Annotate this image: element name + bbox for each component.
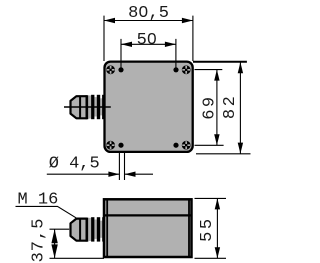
dimension 50 extension lines bbox=[121, 39, 176, 68]
side view left wall line bbox=[106, 200, 108, 257]
cable gland (side view) bbox=[71, 217, 104, 241]
dimension 55 line bbox=[216, 198, 218, 258]
cable gland (top view) bbox=[71, 95, 104, 119]
dimension 37,5 extension lines bbox=[50, 229, 105, 258]
dimension hole diameter leader lines bbox=[47, 173, 153, 175]
dimension 55 extension lines bbox=[195, 198, 227, 258]
side view enclosure body bbox=[104, 199, 192, 257]
dimension 82 line bbox=[239, 62, 241, 153]
dimension 82 extension lines bbox=[193, 61, 247, 63]
mounting hole bottom-left bbox=[118, 143, 123, 148]
mounting hole top-right bbox=[173, 67, 178, 72]
dimension 37,5 line bbox=[54, 229, 56, 258]
dimension 80,5 extension lines bbox=[104, 16, 193, 61]
dimension 50 line bbox=[121, 43, 176, 45]
svg-text:50: 50 bbox=[137, 31, 157, 50]
top view enclosure body bbox=[105, 62, 193, 152]
dimension hole diameter extension lines bbox=[119, 151, 124, 180]
thread label M 16 leader bbox=[16, 206, 77, 217]
dimension 69 line bbox=[216, 70, 218, 146]
lid screw top-left bbox=[106, 65, 115, 74]
svg-text:Ø 4,5: Ø 4,5 bbox=[49, 155, 100, 174]
dimension 69 extension lines bbox=[195, 70, 224, 146]
dimension 80,5 line bbox=[104, 20, 193, 22]
lid screw bottom-left bbox=[106, 141, 115, 150]
lid screw bottom-right bbox=[182, 141, 191, 150]
side view lid seam bbox=[104, 214, 191, 216]
lid screw top-right bbox=[182, 65, 191, 74]
svg-text:37,5: 37,5 bbox=[29, 218, 48, 263]
mounting hole bottom-right bbox=[173, 143, 178, 148]
mounting hole top-left bbox=[118, 67, 123, 72]
cable gland centerline (top view) bbox=[64, 106, 111, 108]
side view right wall line bbox=[188, 200, 190, 257]
svg-text:55: 55 bbox=[198, 216, 217, 241]
svg-text:82: 82 bbox=[221, 94, 240, 119]
